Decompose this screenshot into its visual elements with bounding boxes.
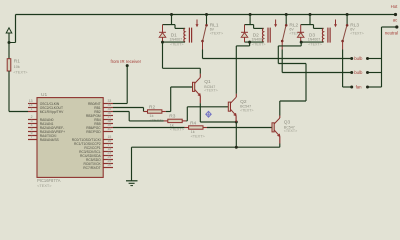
svg-text:<TEXT>: <TEXT> <box>170 43 183 47</box>
svg-text:<TEXT>: <TEXT> <box>240 108 253 112</box>
svg-text:bulb: bulb <box>354 70 363 75</box>
svg-text:<TEXT>: <TEXT> <box>204 89 217 93</box>
svg-text:MCLR/Vpp/THV: MCLR/Vpp/THV <box>40 110 64 114</box>
svg-text:bulb: bulb <box>354 56 363 61</box>
svg-text:7: 7 <box>31 135 33 139</box>
svg-text:neutral: neutral <box>385 31 398 36</box>
svg-text:<TEXT>: <TEXT> <box>37 183 52 188</box>
svg-text:R3: R3 <box>169 114 175 120</box>
svg-text:10k: 10k <box>14 65 20 69</box>
svg-text:from IR receiver: from IR receiver <box>111 59 142 64</box>
svg-text:R1: R1 <box>14 59 20 65</box>
svg-text:1N4007: 1N4007 <box>252 38 265 42</box>
svg-text:<TEXT>: <TEXT> <box>170 128 185 132</box>
svg-text:<TEXT>: <TEXT> <box>150 118 165 122</box>
svg-text:1: 1 <box>31 107 33 111</box>
svg-text:<TEXT>: <TEXT> <box>252 43 265 47</box>
svg-text:<TEXT>: <TEXT> <box>308 43 321 47</box>
svg-text:R2: R2 <box>149 104 155 110</box>
svg-text:<TEXT>: <TEXT> <box>191 134 206 138</box>
svg-text:<TEXT>: <TEXT> <box>350 32 363 36</box>
svg-text:U1: U1 <box>41 92 47 98</box>
svg-text:fan: fan <box>356 85 363 90</box>
svg-text:40: 40 <box>108 127 112 131</box>
svg-text:1N4007: 1N4007 <box>170 38 183 42</box>
svg-text:R4: R4 <box>190 120 196 126</box>
svg-text:<TEXT>: <TEXT> <box>284 129 297 133</box>
svg-text:RA5/AN4/SS: RA5/AN4/SS <box>40 138 60 142</box>
svg-text:26: 26 <box>108 163 112 167</box>
svg-text:Hot: Hot <box>391 4 398 9</box>
svg-text:1N4007: 1N4007 <box>308 38 321 42</box>
svg-text:<TEXT>: <TEXT> <box>13 70 28 74</box>
svg-text:<TEXT>: <TEXT> <box>210 32 223 36</box>
svg-text:RB7/PGD: RB7/PGD <box>86 130 101 134</box>
svg-text:RC7/RX/DT: RC7/RX/DT <box>83 166 100 170</box>
